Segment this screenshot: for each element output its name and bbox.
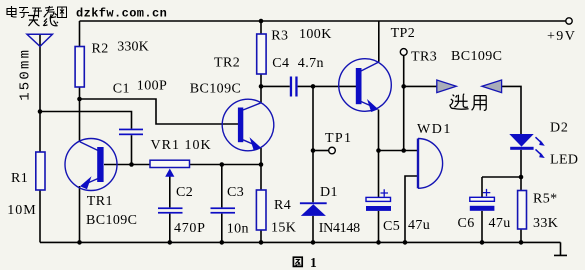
svg-text:10n: 10n (227, 222, 249, 237)
node junction R3 top rail (259, 19, 264, 24)
node junction TR3 emitter WD1 line (376, 148, 381, 153)
wire C3 bottom stub (221, 214, 223, 243)
node junction C1 base line (129, 162, 134, 167)
svg-text:47u: 47u (489, 216, 511, 231)
svg-text:C2: C2 (176, 185, 193, 200)
svg-text:D2: D2 (550, 121, 569, 136)
node junction TP1 (311, 148, 316, 153)
svg-text:LED: LED (550, 153, 578, 168)
svg-text:IN4148: IN4148 (319, 221, 360, 236)
selector arrow left (437, 80, 457, 93)
svg-text:R5*: R5* (533, 191, 558, 206)
wire R1 bottom stub (39, 190, 41, 242)
wire TP1 stub (313, 150, 329, 152)
wire R2 top stub (79, 21, 81, 47)
svg-text:C5: C5 (383, 219, 400, 234)
svg-text:dzkfw.com.cn: dzkfw.com.cn (76, 7, 167, 21)
CJK caption 图 figure (293, 257, 302, 266)
svg-text:15K: 15K (271, 220, 296, 235)
svg-text:TR1: TR1 (87, 194, 113, 209)
wire TR2 emitter vertical (260, 148, 262, 165)
wire TR1 collector vertical (79, 99, 81, 142)
capacitor C4 (290, 77, 298, 97)
svg-text:BC109C: BC109C (190, 81, 241, 96)
capacitor C6 electrolytic (470, 189, 495, 211)
svg-text:VR1 10K: VR1 10K (151, 138, 212, 153)
resistor R4 (256, 190, 266, 230)
CJK label 选用 selector (450, 94, 486, 111)
capacitor C5 electrolytic (366, 189, 391, 211)
node junction R5 rail (519, 240, 524, 245)
node junction TP2 selector (401, 84, 406, 89)
wire to TR2 base horizontal upper (80, 99, 239, 124)
svg-text:C6: C6 (458, 216, 475, 231)
wire C3 top stub (221, 165, 223, 208)
wire C2 bottom stub (169, 214, 171, 243)
potentiometer VR1 body (150, 160, 190, 167)
wire C4 to TR3 base (298, 85, 356, 87)
wire C6 top link (482, 176, 521, 178)
wire collector to C4 (261, 85, 290, 87)
wire antenna stem (39, 34, 41, 152)
node junction TP2 WD1 line (401, 148, 406, 153)
svg-text:150mm: 150mm (18, 48, 34, 101)
svg-text:1: 1 (310, 255, 317, 270)
diode D1 (300, 202, 327, 216)
wire R5 bottom stub (520, 229, 522, 242)
node junction R4 rail (259, 240, 264, 245)
capacitor C1 (119, 129, 143, 136)
transistor TR2 (222, 99, 274, 151)
svg-text:47u: 47u (408, 218, 430, 233)
svg-text:4.7n: 4.7n (298, 56, 324, 71)
node junction D1 rail (311, 240, 316, 245)
svg-text:100K: 100K (299, 27, 332, 42)
antenna (27, 34, 52, 46)
capacitor C3 (211, 207, 236, 213)
wire TR1 emitter vertical (79, 186, 81, 242)
wire WD1 bottom stub (405, 176, 418, 242)
svg-text:470P: 470P (174, 221, 206, 236)
wire R3 top stub (260, 21, 262, 34)
node junction antenna line (38, 109, 43, 114)
node junction TR1 emitter rail (77, 240, 82, 245)
wire TR3 emitter vertical (378, 110, 380, 151)
node junction TR2 collector (259, 84, 264, 89)
wire VR1 right to R4 top (190, 164, 262, 166)
svg-text:TP1: TP1 (325, 131, 352, 146)
wire TP2 drop (403, 55, 405, 150)
node junction C3 top (220, 162, 225, 167)
svg-text:BC109C: BC109C (86, 213, 137, 228)
svg-text:BC109C: BC109C (451, 49, 502, 64)
piezo sounder WD1 (418, 139, 443, 189)
svg-text:33K: 33K (533, 216, 558, 231)
terminal TP2 circle (400, 49, 407, 56)
resistor R2 (75, 47, 84, 88)
terminal TP1 circle (329, 147, 336, 154)
node junction C2 rail (168, 240, 173, 245)
svg-text:TR3: TR3 (411, 50, 437, 65)
terminal +9V circle (566, 18, 572, 24)
wire D2 cathode to R5 (520, 150, 522, 191)
svg-text:R3: R3 (271, 29, 288, 44)
wire TR2 collector vertical (260, 86, 262, 102)
wire ground bottom rail (40, 241, 561, 243)
transistor TR3 (339, 59, 392, 112)
wire R4 bottom stub (260, 230, 262, 242)
LED D2 (509, 134, 545, 158)
wire R4 top stub (260, 165, 262, 191)
node junction R2 bottom (77, 97, 82, 102)
potentiometer VR1 wiper arrow (165, 169, 174, 177)
svg-text:100P: 100P (137, 79, 167, 94)
transistor TR1 (65, 139, 117, 191)
svg-text:C3: C3 (227, 185, 244, 200)
CJK label 天线 antenna (28, 13, 58, 26)
svg-text:C4: C4 (272, 56, 289, 71)
svg-text:D1: D1 (320, 185, 338, 200)
wire TP1 drop (312, 86, 314, 150)
resistor R5 (518, 191, 527, 230)
resistor R3 (257, 34, 266, 74)
wire VR1 wiper to C2 (169, 176, 171, 207)
wire C5 top stub (378, 151, 380, 198)
wire selector right to D2 (502, 86, 521, 134)
node junction C6 R5 (519, 175, 524, 180)
svg-text:R1: R1 (11, 171, 28, 186)
svg-text:C1: C1 (113, 81, 130, 96)
wire D1 bottom stub (312, 216, 314, 243)
node junction WD1 rail (403, 240, 408, 245)
svg-text:+9V: +9V (547, 29, 576, 44)
node junction C5 rail (376, 240, 381, 245)
capacitor C2 (158, 207, 183, 213)
svg-text:R2: R2 (92, 42, 109, 57)
wire R2 bottom stub (79, 87, 81, 99)
selector arrow right (482, 80, 502, 93)
node junction C3 rail (220, 240, 225, 245)
svg-text:WD1: WD1 (417, 122, 452, 137)
svg-text:TP2: TP2 (391, 26, 416, 41)
resistor R1 (36, 152, 45, 190)
wire antenna to C1 (40, 112, 132, 129)
svg-text:330K: 330K (117, 40, 149, 55)
wire C6 top stub (481, 177, 483, 197)
CJK watermark 电子开发网 hand-drawn (7, 6, 67, 18)
wire selector left (404, 85, 437, 87)
wire C1 bottom to base line (131, 135, 133, 164)
wire TR3 collector to rail (378, 21, 380, 62)
wire C6 bottom stub (481, 211, 483, 243)
wire R3 bottom stub (260, 74, 262, 86)
svg-text:10M: 10M (7, 203, 36, 218)
wire TR1 base to VR1 (104, 164, 150, 166)
node junction TP1 drop top (311, 84, 316, 89)
node junction R4 top (259, 162, 264, 167)
wire top supply rail (80, 20, 567, 22)
node junction C6 rail (480, 240, 485, 245)
svg-text:R4: R4 (274, 198, 291, 213)
svg-text:TR2: TR2 (214, 56, 240, 71)
wire C5 bottom stub (378, 211, 380, 243)
wire D1 top stub (312, 151, 314, 203)
ground symbol (554, 242, 567, 255)
wire emitter node to WD1 (379, 150, 418, 152)
